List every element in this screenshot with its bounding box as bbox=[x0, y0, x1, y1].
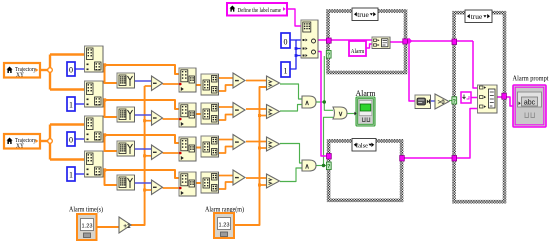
wire subtract T4 output to array subset D4 bbox=[163, 187, 180, 189]
svg-text:1: 1 bbox=[69, 101, 73, 110]
tunnel magenta case 3 left top bbox=[452, 39, 457, 45]
case structure 2 selector label false bbox=[352, 139, 376, 152]
array size B2 bbox=[117, 107, 135, 122]
junction alarm range wire row 3 bbox=[258, 147, 261, 150]
array size B1 bbox=[117, 73, 135, 88]
wire array size B4 to subtract T4 bbox=[135, 182, 152, 184]
wire subtract F2 output to comparison G2 bbox=[246, 108, 267, 110]
wire index array A4 output branch to array size B4 bbox=[105, 170, 118, 185]
svg-text:0: 0 bbox=[69, 66, 73, 75]
control Define the label name bbox=[227, 3, 287, 16]
constant 1 index input 2 bbox=[67, 97, 75, 111]
wire array subset D1 to max-min E1 bbox=[196, 84, 201, 86]
wire index array A1 output branch to array size B1 bbox=[105, 65, 118, 83]
coercion dot array subset D1 bbox=[179, 83, 182, 86]
wire and gate 2 output to or gate bbox=[324, 117, 334, 165]
junction blue format input b bbox=[295, 54, 298, 57]
comparison G3 bbox=[267, 137, 280, 151]
index array A4 bbox=[85, 151, 104, 177]
wire alarm time control to increment bbox=[96, 226, 119, 228]
wire array size B2 to subtract T2 bbox=[135, 114, 152, 116]
subtract T4 bbox=[152, 180, 163, 195]
wire greater-than-zero to case selector right bbox=[449, 100, 454, 102]
subtract T1 bbox=[152, 76, 163, 91]
svg-text:XY: XY bbox=[16, 143, 24, 150]
wire concatenate 1 to right tunnel bbox=[390, 41, 403, 43]
tunnel magenta false case left bbox=[327, 154, 332, 160]
svg-text:?: ? bbox=[327, 164, 331, 170]
svg-text:∧: ∧ bbox=[304, 164, 309, 171]
wire define label control to format node bbox=[287, 9, 301, 26]
comparison G4 bbox=[267, 174, 280, 188]
wire and gate 1 output to or gate bbox=[324, 102, 333, 110]
coercion dot subtract T1 bbox=[151, 80, 154, 83]
tunnel magenta case 3 left bottom bbox=[452, 156, 457, 162]
svg-text:Alarm time(s): Alarm time(s) bbox=[69, 205, 103, 214]
wire end-of-line constant to concatenate 2 bbox=[471, 97, 478, 99]
wire array subset D3 to max-min E3 bbox=[196, 147, 201, 149]
wire index array A4 output to array subset D4 bbox=[103, 170, 179, 178]
and gate 1 bbox=[302, 96, 316, 108]
case structure 3 selector label true bbox=[465, 10, 492, 23]
wire array subset D2 to max-min E2 bbox=[196, 113, 201, 115]
array max min E1 bbox=[201, 74, 219, 95]
or gate bbox=[333, 107, 347, 119]
wire array size B1 to subtract T1 bbox=[135, 80, 152, 82]
subtract F2 bbox=[233, 103, 245, 118]
wire array size B3 to subtract T3 bbox=[135, 148, 152, 150]
selector terminal case 3 bbox=[452, 97, 457, 104]
node junction trajectory 2 bbox=[48, 139, 53, 144]
index array A3 bbox=[85, 116, 104, 142]
wire alarm range to comparison G4 bbox=[260, 184, 267, 186]
array subset D4 bbox=[179, 172, 196, 196]
svg-text:∨: ∨ bbox=[338, 111, 343, 118]
junction and gate 1 output bbox=[323, 100, 326, 103]
wire constant 1 to index array A4 bbox=[75, 173, 85, 175]
svg-text:?: ? bbox=[452, 99, 456, 105]
wire false case output to concatenate 2 bottom input bbox=[403, 109, 478, 159]
junction alarm range wire row 2 bbox=[258, 114, 261, 117]
array max min E4 bbox=[201, 172, 219, 193]
comparison G2 bbox=[267, 105, 280, 119]
wire tunnel to alarm prompt indicator bbox=[505, 97, 513, 106]
constant 0 index input 3 bbox=[67, 132, 75, 146]
case structure 1 selector label true bbox=[352, 8, 378, 21]
wire alarm range to comparison G3 bbox=[260, 147, 267, 149]
wire constant 0 to format node bbox=[290, 40, 296, 69]
control Trajectory XY 2 bbox=[4, 134, 40, 149]
wire constant 0 to index array A1 bbox=[75, 68, 85, 70]
wire array subset D4 to max-min E4 bbox=[196, 182, 201, 184]
wire constant 1 to index array A2 bbox=[75, 103, 85, 105]
array subset D2 bbox=[179, 103, 196, 127]
svg-text:Alarm prompt: Alarm prompt bbox=[513, 74, 550, 83]
wire trajectory 1 branch vertical bbox=[49, 55, 51, 90]
wire subtract T1 output to array subset D1 bbox=[163, 83, 180, 85]
subtract F1 bbox=[233, 73, 245, 88]
junction alarm range wire row 4 bbox=[258, 184, 261, 187]
wire max-min E2 max output to subtract F2 bbox=[219, 106, 234, 108]
wire junction down to string length bbox=[409, 41, 415, 101]
selector terminal true case bbox=[326, 51, 331, 59]
subtract T2 bbox=[152, 111, 163, 126]
wire max-min E1 max output to subtract F1 bbox=[219, 77, 234, 79]
junction true case output bbox=[406, 38, 412, 44]
svg-text:true: true bbox=[357, 12, 369, 19]
svg-text:+1: +1 bbox=[123, 223, 131, 230]
wire index array A3 output branch to array size B3 bbox=[105, 135, 118, 151]
wire max-min E1 min output to subtract F1 bbox=[219, 85, 234, 91]
svg-text:true: true bbox=[471, 14, 483, 21]
wire and gate 1 output to case selector true bbox=[316, 56, 324, 102]
array size B3 bbox=[117, 141, 135, 156]
increment function bbox=[119, 217, 131, 233]
concatenate strings 1 bbox=[372, 37, 390, 49]
svg-text:1: 1 bbox=[284, 67, 288, 76]
wire index array A1 output to array subset D1 bbox=[103, 65, 179, 74]
wire increment to subtract T2 lower input bbox=[145, 120, 152, 122]
svg-text:>0: >0 bbox=[438, 99, 446, 106]
index array A2 bbox=[85, 81, 104, 107]
wire max-min E4 min output to subtract F4 bbox=[219, 182, 234, 189]
subtract T3 bbox=[152, 145, 163, 160]
wire alarm range to comparison G2 bbox=[260, 115, 267, 117]
wire or gate to alarm indicator bbox=[347, 113, 356, 115]
constant 0 for format node bbox=[281, 33, 290, 48]
wire subtract F3 output to comparison G3 bbox=[246, 141, 267, 143]
wire increment to subtract T3 lower input bbox=[145, 155, 152, 157]
constant 1 for format node bbox=[281, 62, 290, 77]
junction increment wire row 3 bbox=[143, 154, 146, 157]
coercion dot subtract T2 bbox=[151, 114, 154, 117]
wire subtract T3 output to array subset D3 bbox=[163, 152, 180, 154]
svg-text:0: 0 bbox=[284, 38, 288, 47]
wire comparison G3 to and gate 2 bbox=[280, 144, 302, 164]
wire concatenate 2 output to tunnel bbox=[497, 96, 502, 98]
array subset D1 bbox=[179, 68, 196, 92]
svg-text:?: ? bbox=[327, 53, 331, 59]
coercion dot array subset D4 bbox=[179, 187, 182, 190]
wire max-min E2 min output to subtract F2 bbox=[219, 115, 234, 121]
tunnel magenta case 3 right bbox=[502, 93, 507, 99]
wire increment to subtract T4 lower input bbox=[145, 189, 152, 191]
wire increment output vertical distribution bbox=[131, 86, 145, 225]
svg-text:abc: abc bbox=[524, 100, 536, 107]
wire max-min E3 min output to subtract F3 bbox=[219, 147, 234, 154]
wire alarm range control vertical distribution bbox=[234, 87, 267, 225]
junction on A3 output bbox=[103, 133, 106, 136]
tunnel magenta false case right bbox=[400, 156, 405, 162]
wire index array A2 output branch to array size B2 bbox=[105, 100, 118, 117]
array max min E3 bbox=[201, 136, 219, 157]
svg-text:0: 0 bbox=[69, 136, 73, 145]
wire format node second output down bbox=[318, 52, 327, 157]
wire index array A2 output to array subset D2 bbox=[103, 100, 179, 109]
format into string node bbox=[301, 20, 318, 58]
subtract F3 bbox=[233, 135, 245, 150]
case structure 3 (right true case) border bbox=[454, 13, 505, 202]
junction increment wire row 4 bbox=[143, 189, 146, 192]
string constant Alarm bbox=[349, 41, 366, 56]
array subset D3 bbox=[179, 137, 196, 161]
wire increment to subtract T1 lower input bbox=[145, 85, 152, 87]
wire trajectory 1 to index array A2 bbox=[50, 88, 85, 90]
wire true case output main horizontal bbox=[406, 40, 473, 42]
constant 1 index input 4 bbox=[67, 167, 75, 181]
wire subtract F4 output to comparison G4 bbox=[246, 177, 267, 179]
array max min E2 bbox=[201, 103, 219, 124]
and gate 2 bbox=[302, 160, 316, 171]
subtract F4 bbox=[233, 170, 245, 185]
wire format node input stub 1 bbox=[296, 39, 301, 41]
wire string length to greater-than-zero bbox=[430, 100, 435, 102]
wire max-min E3 max output to subtract F3 bbox=[219, 139, 234, 141]
greater than zero node bbox=[435, 94, 449, 109]
control Alarm time(s) bbox=[77, 214, 97, 240]
wire subtract F1 output to comparison G1 bbox=[246, 80, 267, 82]
svg-text:false: false bbox=[356, 143, 368, 150]
wire format node output to true case tunnel bbox=[318, 39, 327, 41]
wire into concatenate 2 top input bbox=[473, 41, 478, 88]
junction and gate 2 output bbox=[322, 164, 325, 167]
case structure 2 (false case) border bbox=[329, 141, 402, 200]
wire comparison G2 to and gate 1 bbox=[280, 105, 302, 112]
comparison G1 bbox=[267, 76, 280, 90]
svg-text:1.23: 1.23 bbox=[219, 223, 230, 229]
wire trajectory 2 to index array A4 bbox=[50, 158, 85, 160]
wire constant 0 to index array A3 bbox=[75, 138, 85, 140]
wire trajectory 1 to index array A1 bbox=[50, 53, 85, 55]
wire format node input stub 3 bbox=[296, 55, 301, 57]
wire index array A3 output to array subset D3 bbox=[103, 135, 179, 143]
junction on A1 output bbox=[103, 63, 106, 66]
svg-text:∧: ∧ bbox=[304, 100, 309, 107]
wire subtract T2 output to array subset D2 bbox=[163, 118, 180, 120]
wire trajectory 1 to junction bbox=[40, 69, 50, 71]
concatenate strings 2 bbox=[478, 85, 498, 113]
wire comparison G4 to and gate 2 bbox=[280, 168, 302, 182]
coercion dot subtract T3 bbox=[151, 148, 154, 151]
node junction trajectory 1 bbox=[48, 68, 53, 73]
wire comparison G1 to and gate 1 bbox=[280, 84, 302, 99]
junction blue format input a bbox=[295, 47, 298, 50]
junction on A2 output bbox=[103, 98, 106, 101]
wire true case tunnel to concatenate 1 bbox=[330, 39, 372, 41]
tunnel magenta true case left bbox=[326, 38, 331, 43]
coercion dot array subset D2 bbox=[179, 118, 182, 121]
wire format node input stub 2 bbox=[296, 48, 301, 50]
control Trajectory XY 1 bbox=[4, 63, 40, 78]
wire trajectory 2 branch vertical bbox=[49, 125, 51, 160]
wire trajectory 2 to junction bbox=[40, 140, 50, 142]
selector terminal false case bbox=[326, 162, 331, 170]
junction on A4 output bbox=[103, 168, 106, 171]
tunnel magenta true case right bbox=[403, 39, 408, 44]
index array A1 bbox=[85, 46, 104, 72]
svg-text:Alarm: Alarm bbox=[351, 48, 365, 55]
wire trajectory 2 to index array A3 bbox=[50, 123, 85, 125]
indicator Alarm boolean LED bbox=[356, 97, 375, 126]
svg-text:1.23: 1.23 bbox=[82, 224, 93, 230]
array size B4 bbox=[117, 175, 135, 190]
wire and gate 2 output to case selector false bbox=[316, 165, 327, 167]
coercion dot subtract T4 bbox=[151, 182, 154, 185]
end of line constant bbox=[461, 92, 471, 103]
control Alarm range(m) bbox=[214, 213, 234, 238]
coercion dot array subset D3 bbox=[179, 152, 182, 155]
constant 0 index input 1 bbox=[67, 62, 75, 76]
svg-text:XY: XY bbox=[16, 72, 24, 79]
indicator Alarm prompt string bbox=[513, 85, 546, 127]
svg-text:1: 1 bbox=[69, 171, 73, 180]
string length node bbox=[415, 95, 431, 109]
wire max-min E4 max output to subtract F4 bbox=[219, 175, 234, 177]
svg-text:Define the label name: Define the label name bbox=[238, 7, 282, 14]
wire alarm string constant to concatenate 1 bbox=[366, 44, 372, 48]
case structure 1 (true case) border bbox=[328, 11, 406, 73]
junction increment wire row 2 bbox=[143, 119, 146, 122]
